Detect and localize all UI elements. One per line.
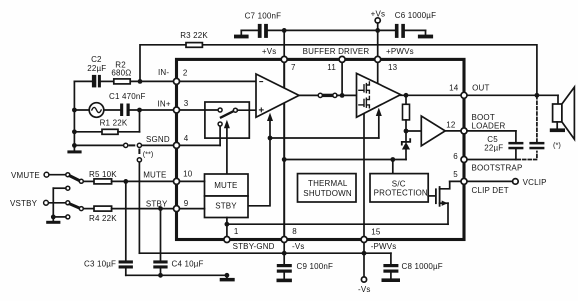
- node IN- junction: [138, 79, 143, 84]
- svg-text:13: 13: [388, 63, 398, 72]
- svg-text:LOADER: LOADER: [472, 122, 506, 131]
- svg-text:MUTE: MUTE: [143, 171, 166, 180]
- resistor (internal bootstrap): [403, 95, 410, 131]
- node switch ground junction: [51, 215, 56, 220]
- wire STBY block to pin1: [226, 218, 228, 240]
- IC package TDA outline: [177, 59, 465, 239]
- svg-text:-PWVs: -PWVs: [371, 242, 397, 251]
- svg-text:CLIP DET: CLIP DET: [472, 186, 509, 195]
- svg-text:C8 1000µF: C8 1000µF: [402, 262, 443, 271]
- node SGND link circles: [124, 143, 142, 147]
- wire pin15 stem to -Vs: [363, 240, 365, 277]
- svg-text:C6 1000µF: C6 1000µF: [395, 11, 436, 20]
- node stby-gnd junction: [225, 222, 230, 227]
- ground (switches): [46, 221, 60, 224]
- svg-text:22µF: 22µF: [87, 64, 106, 73]
- svg-text:(*): (*): [553, 140, 561, 149]
- svg-text:SHUTDOWN: SHUTDOWN: [303, 189, 352, 198]
- svg-text:10: 10: [183, 170, 193, 179]
- svg-text:R5 10K: R5 10K: [89, 170, 117, 179]
- wire left ground rail: [73, 81, 75, 150]
- capacitor C9: [277, 262, 333, 278]
- terminal VMUTE: [11, 171, 49, 180]
- svg-text:+Vs: +Vs: [371, 9, 386, 18]
- pin name labels top: [262, 47, 414, 56]
- pin 3: [174, 99, 189, 113]
- wire C3/C4 ground bus: [126, 274, 227, 276]
- svg-text:C3 10µF: C3 10µF: [84, 260, 116, 269]
- svg-text:8: 8: [292, 227, 297, 236]
- svg-text:7: 7: [291, 63, 296, 72]
- capacitor C6: [395, 11, 436, 38]
- svg-text:BOOTSTRAP: BOOTSTRAP: [472, 163, 523, 172]
- wire pin5 row (clip det): [450, 180, 513, 182]
- pin 12: [446, 121, 467, 134]
- capacitor C2: [87, 55, 106, 87]
- wire pin13 to +Vs rail: [377, 30, 379, 57]
- node C4 ground junction: [158, 273, 163, 278]
- pin 9: [174, 199, 189, 212]
- op-amp U1 (input stage): [256, 74, 299, 117]
- wire -Vs bus: [139, 252, 391, 254]
- node mute junction: [123, 179, 128, 184]
- wire stby to C4: [160, 209, 162, 261]
- resistor R1: [74, 110, 139, 134]
- op-amp U3 (boot loader buffer): [421, 116, 445, 146]
- svg-text:R1 22K: R1 22K: [100, 119, 128, 128]
- svg-text:OUT: OUT: [472, 83, 489, 92]
- capacitor (optional, dashed net): [529, 142, 544, 149]
- switch S1 (mute): [49, 173, 83, 191]
- block S/C PROTECTION: [370, 174, 428, 202]
- svg-text:5: 5: [453, 170, 458, 179]
- svg-text:BUFFER DRIVER: BUFFER DRIVER: [303, 47, 370, 56]
- wire pin2 to op-amp -: [177, 80, 257, 82]
- transistor Q1 (clip detector mosfet): [428, 181, 450, 206]
- ground (C8): [382, 278, 401, 282]
- wire zener return to rail: [284, 159, 406, 161]
- svg-text:-Vs: -Vs: [358, 285, 371, 294]
- wire buffer to pin12: [445, 130, 464, 132]
- wire to boot loader buffer: [406, 130, 421, 132]
- junction dots on +Vs rail: [282, 28, 380, 33]
- ground (pin1 stby-gnd): [220, 273, 235, 282]
- capacitor C8: [383, 253, 442, 278]
- svg-text:MUTE: MUTE: [214, 181, 237, 190]
- resistor R4: [83, 206, 176, 223]
- svg-text:22µF: 22µF: [484, 144, 503, 153]
- wire SGND optional drop (**): [137, 150, 153, 254]
- svg-text:BOOT: BOOT: [472, 113, 495, 122]
- pin 8: [281, 227, 297, 242]
- node pin15 bus junction: [362, 251, 367, 256]
- wire pin12 to C5: [464, 130, 516, 132]
- wire mute arrow control: [224, 120, 230, 174]
- node OUT junction: [404, 93, 409, 98]
- svg-text:4: 4: [184, 134, 189, 143]
- block MUTE: [205, 174, 249, 196]
- wire stby-gnd row: [227, 203, 448, 224]
- speaker: [553, 87, 575, 149]
- signal source: [89, 103, 104, 118]
- resistor R5: [83, 170, 176, 184]
- svg-text:1: 1: [234, 227, 239, 236]
- svg-text:C1 470nF: C1 470nF: [109, 92, 146, 101]
- wire IN+ row: [74, 109, 176, 111]
- node rail/zener junction: [282, 157, 287, 162]
- wire mute to C3: [125, 181, 127, 260]
- svg-text:C7 100nF: C7 100nF: [245, 12, 282, 21]
- pin 15: [361, 228, 381, 243]
- svg-text:3: 3: [184, 99, 189, 108]
- junction dots left rail: [72, 108, 77, 148]
- wire IN- row: [74, 80, 176, 82]
- diode D1 (zener): [402, 131, 410, 160]
- block THERMAL SHUTDOWN: [298, 174, 357, 202]
- wire switch ground link: [52, 188, 54, 221]
- svg-text:12: 12: [446, 121, 456, 130]
- resistor R3: [180, 31, 208, 47]
- node OUT/feedback junction: [535, 93, 540, 98]
- wire pin13 stem into power amp: [377, 61, 379, 84]
- pin 14: [449, 83, 467, 98]
- svg-text:C9 100nF: C9 100nF: [297, 262, 334, 271]
- capacitor C5: [484, 131, 523, 160]
- svg-text:VCLIP: VCLIP: [523, 178, 547, 187]
- wire pin9 to STBY block: [177, 208, 205, 210]
- svg-text:STBY-GND: STBY-GND: [233, 242, 275, 251]
- node S/C sense junction: [390, 157, 395, 162]
- wire OUT row: [401, 94, 464, 96]
- ground (C9): [277, 279, 292, 283]
- svg-text:VMUTE: VMUTE: [11, 171, 40, 180]
- wire +Vs top rail: [241, 29, 425, 31]
- svg-text:C4 10µF: C4 10µF: [172, 260, 204, 269]
- svg-text:6: 6: [453, 152, 458, 161]
- wire link between stages: [299, 93, 357, 97]
- pin 7: [281, 56, 296, 71]
- svg-text:R3 22K: R3 22K: [180, 31, 208, 40]
- wire pin6 bootstrap row: [464, 159, 516, 161]
- switch box (input mute switch): [205, 102, 249, 138]
- svg-text:2: 2: [183, 69, 188, 78]
- pin 13: [375, 56, 398, 71]
- wire S/C sense drop: [392, 160, 394, 174]
- ground (input): [67, 150, 81, 153]
- ground (C7 left): [234, 30, 249, 38]
- wire pin7 to +Vs rail: [283, 30, 285, 57]
- terminal +Vs: [371, 9, 386, 30]
- wire feedback OUT to IN- (R3 net): [140, 45, 537, 96]
- capacitor C3: [84, 260, 133, 276]
- wire dashed bootstrap option: [518, 98, 537, 160]
- svg-text:THERMAL: THERMAL: [308, 179, 348, 188]
- wire pin8 stem to bus: [283, 240, 285, 265]
- op-amp U2 (power stage): [357, 73, 401, 117]
- pin name labels right: [472, 83, 523, 195]
- wire stby arrow control: [248, 113, 273, 206]
- pin 11: [327, 56, 345, 71]
- ground (C6 right): [418, 30, 433, 38]
- block STBY: [205, 196, 249, 218]
- svg-text:11: 11: [327, 63, 336, 72]
- pin name labels bottom: [233, 242, 397, 251]
- svg-text:S/C: S/C: [392, 179, 406, 188]
- pin 4: [174, 134, 189, 149]
- node link junction: [340, 93, 345, 98]
- switch contacts and blade: [218, 108, 237, 126]
- terminal VSTBY: [10, 199, 48, 208]
- svg-text:STBY: STBY: [215, 202, 237, 211]
- svg-text:IN-: IN-: [158, 68, 169, 77]
- wire pin14 OUT to speaker: [464, 94, 558, 96]
- svg-text:680Ω: 680Ω: [111, 68, 131, 77]
- svg-text:14: 14: [449, 83, 459, 92]
- capacitor C7: [245, 12, 282, 38]
- svg-text:STBY: STBY: [146, 199, 168, 208]
- svg-text:VSTBY: VSTBY: [10, 199, 38, 208]
- wire power amp return to pin15: [363, 113, 365, 240]
- ground (speaker): [550, 128, 565, 132]
- wire bias branch to power amp arrow: [268, 108, 382, 141]
- capacitor C4: [153, 260, 203, 276]
- svg-text:(**): (**): [143, 150, 154, 159]
- node stby junction: [158, 206, 163, 211]
- node IN+ junction: [137, 108, 142, 113]
- pin 5: [453, 170, 467, 185]
- svg-text:9: 9: [184, 199, 189, 208]
- svg-text:-Vs: -Vs: [292, 242, 305, 251]
- terminal VCLIP: [513, 178, 547, 187]
- wire pin4 to switch lower contact: [177, 126, 221, 145]
- svg-text:IN+: IN+: [158, 100, 171, 109]
- svg-text:+Vs: +Vs: [262, 47, 277, 56]
- svg-text:15: 15: [371, 228, 381, 237]
- wire SGND row: [74, 144, 176, 146]
- capacitor C1: [109, 92, 146, 116]
- svg-text:PROTECTION: PROTECTION: [374, 189, 428, 198]
- pin name labels left: [143, 68, 171, 209]
- pin 6: [453, 152, 467, 163]
- wire pin10 to MUTE block: [177, 180, 205, 182]
- wire pin3 to switch: [177, 109, 219, 111]
- node resistor/zener junction: [404, 129, 409, 134]
- svg-text:SGND: SGND: [146, 135, 170, 144]
- pin 10: [174, 170, 193, 185]
- node pin8 bus junction: [282, 251, 287, 256]
- switch S2 (standby): [49, 201, 83, 219]
- wire internal rail pin7-pin8: [283, 61, 285, 240]
- terminal -Vs: [358, 277, 371, 294]
- wire switch to op-amp +: [238, 109, 257, 111]
- wire pin11 stem: [341, 61, 343, 95]
- resistor R2: [111, 61, 131, 84]
- pin 2: [174, 69, 188, 85]
- pin 1: [224, 227, 239, 242]
- svg-text:+PWVs: +PWVs: [386, 47, 414, 56]
- svg-text:R4 22K: R4 22K: [89, 214, 117, 223]
